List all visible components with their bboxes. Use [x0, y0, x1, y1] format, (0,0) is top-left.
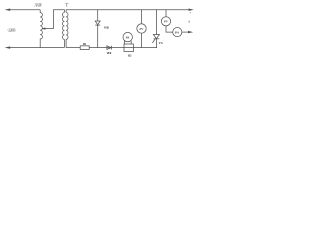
- wire thyristor bottom: [155, 39, 157, 48]
- thyristor VS: [153, 35, 159, 39]
- wire PA2 to output: [182, 31, 189, 33]
- arrow LATR tap: [41, 28, 45, 30]
- voltmeter PV1: [137, 24, 146, 33]
- arrow output bottom right: [188, 31, 193, 33]
- wire PA1 stub right: [130, 41, 132, 44]
- wire top-left input: [9, 9, 41, 11]
- ammeter PA2: [173, 27, 182, 36]
- wire VD2 branch: [97, 10, 99, 21]
- svg-text:PA: PA: [126, 35, 130, 39]
- wire PV2 to PA2: [166, 26, 173, 32]
- svg-text:VD1: VD1: [106, 51, 111, 55]
- svg-text:~220 В: ~220 В: [7, 27, 16, 32]
- wire thyristor branch top: [155, 10, 157, 35]
- svg-text:Т: Т: [65, 3, 69, 9]
- svg-text:R1: R1: [83, 42, 87, 46]
- arrow left input bottom: [5, 46, 11, 48]
- arrow output top right: [189, 9, 194, 11]
- transformer T primary winding: [62, 12, 64, 39]
- transformer T secondary winding: [66, 12, 68, 39]
- svg-text:PA: PA: [175, 31, 180, 35]
- wire PV2 stub: [165, 10, 167, 17]
- svg-text:а: а: [188, 18, 190, 23]
- wire bottom rail secondary side: [66, 47, 157, 49]
- autotransformer LATR winding: [40, 10, 42, 48]
- wire thyristor gate: [152, 39, 155, 43]
- wire bottom-left input rail: [9, 47, 65, 49]
- wire lamp branch top: [141, 10, 143, 24]
- arrow left input top: [5, 9, 11, 11]
- voltmeter PV2: [161, 17, 170, 26]
- svg-text:VS: VS: [159, 41, 163, 45]
- wire secondary top riser: [66, 10, 189, 13]
- wire PA1 stub left: [123, 41, 125, 44]
- svg-text:ЛАТР: ЛАТР: [34, 2, 42, 7]
- ammeter PA1: [123, 32, 132, 41]
- svg-text:VD2: VD2: [104, 26, 109, 30]
- node mark small: [190, 12, 191, 13]
- wire lamp branch bottom: [141, 33, 143, 47]
- resistor R1: [80, 46, 89, 50]
- shunt box R2: [124, 44, 133, 52]
- wire LATR tap: [44, 28, 54, 30]
- wire tap riser to primary: [54, 10, 65, 29]
- diode VD1: [107, 46, 111, 50]
- svg-text:R2: R2: [128, 54, 132, 58]
- wire primary bottom drop: [63, 39, 65, 47]
- diode VD2: [95, 21, 100, 25]
- wire secondary bottom drop: [65, 39, 67, 47]
